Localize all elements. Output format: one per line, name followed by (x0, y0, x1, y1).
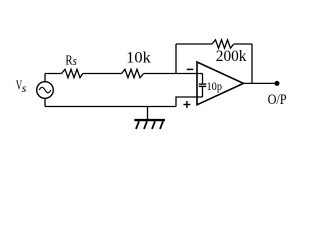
ground hatch 4 (160, 121, 163, 129)
op-amp U1 (197, 62, 244, 105)
capacitor 10p upper lead (202, 74, 204, 84)
resistor 10k (122, 69, 144, 77)
wire: Vs bottom stub (44, 98, 46, 106)
wire: feedback top right segment (234, 43, 252, 45)
wire: 10k to inverting input (node A) (144, 73, 203, 75)
resistor Rs (62, 69, 83, 77)
wire: Vs top stub (44, 74, 46, 83)
op-amp plus label (183, 104, 190, 106)
capacitor 10p plates (199, 83, 206, 85)
ground hatch 2 (144, 121, 147, 129)
capacitor 10p lower lead (202, 87, 204, 97)
sine wave inside Vs (39, 87, 51, 92)
wire: feedback right vertical (251, 44, 253, 83)
wire: non-inverting input (176, 97, 203, 107)
ground stem (147, 107, 149, 121)
ground bar (134, 119, 165, 121)
source Vs (37, 82, 54, 99)
wire: feedback left vertical (175, 44, 177, 74)
wire: bottom rail (45, 106, 176, 108)
resistor 200k (212, 40, 234, 48)
op-amp minus label (187, 68, 194, 70)
wire: output (244, 82, 277, 84)
ground hatch 3 (152, 121, 155, 129)
svg-text:200k: 200k (216, 48, 247, 65)
svg-text:s: s (22, 81, 27, 95)
svg-text:O/P: O/P (268, 92, 287, 108)
svg-text:10p: 10p (207, 81, 223, 93)
wire: between Rs and 10k (83, 73, 122, 75)
svg-text:s: s (73, 53, 77, 68)
output terminal dot (275, 81, 280, 86)
wire: feedback top left segment (176, 43, 212, 45)
svg-text:10k: 10k (126, 49, 151, 66)
ground hatch 1 (136, 121, 139, 129)
wire: top rail left segment (45, 73, 62, 75)
